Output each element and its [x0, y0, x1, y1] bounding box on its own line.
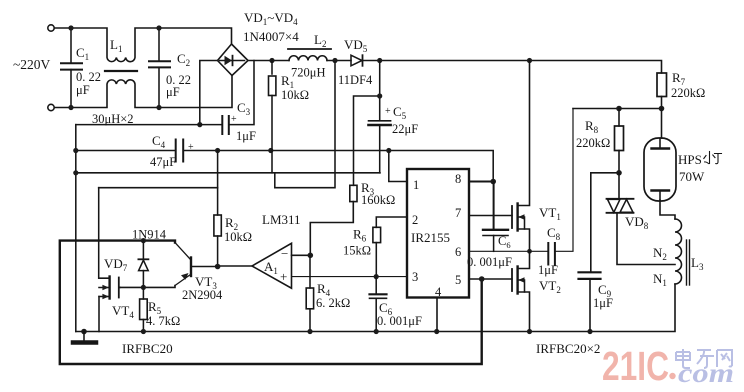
svg-text:VD5: VD5 [344, 37, 368, 54]
junction dot inverting node [308, 253, 314, 259]
svg-text:1μF: 1μF [236, 129, 256, 143]
wire: emitter line y=287.4 [120, 286, 175, 288]
wire: bottom AC line from terminal through L1 bottom winding to bridge bottom [54, 76, 232, 108]
wire: rail between L2 and VD5 [327, 60, 351, 62]
svg-text:IRFBC20×2: IRFBC20×2 [536, 341, 600, 356]
diode VD5 [351, 55, 363, 66]
svg-text:C1: C1 [76, 45, 89, 62]
wire: comparator + input line to IC pin 3 [292, 276, 408, 278]
diode VD7 [138, 241, 148, 288]
svg-text:N2: N2 [653, 245, 667, 262]
wire: pin 2 to R6 top [376, 217, 407, 227]
svg-text:11DF4: 11DF4 [338, 73, 373, 87]
junction dot C5/R3 branch [377, 93, 382, 98]
junction dot pin4 bottom [434, 329, 439, 334]
junction dot rail at R1 [268, 148, 273, 153]
wire: lamp bottom to L3 [660, 200, 675, 219]
wire: supply rail y=150.5 left segment to C4 [76, 150, 176, 152]
svg-text:IRFBC20: IRFBC20 [122, 341, 173, 356]
svg-text:+: + [231, 114, 237, 125]
svg-text:N1: N1 [653, 271, 667, 288]
transistor VT3 2N2904 [175, 243, 218, 286]
wire: supply rail y=150.5 from C4 to pin8 drop [183, 151, 493, 182]
inductor L3 winding [675, 219, 682, 284]
inductor L1 core bar [105, 70, 137, 72]
svg-text:VD7: VD7 [104, 256, 128, 273]
svg-text:1μF: 1μF [593, 296, 613, 310]
junction dot C9 bottom [587, 329, 592, 334]
lamp HPS 70W [644, 109, 676, 202]
wire: R8 bottom node line to C9 [591, 173, 619, 272]
wire: ground rail y=331.5 [76, 284, 675, 332]
wire: bridge negative output, left corner down to node [200, 61, 218, 125]
svg-text:4: 4 [435, 285, 442, 299]
svg-text:1μF: 1μF [538, 263, 558, 277]
svg-text:C4: C4 [152, 133, 166, 150]
junction dot rail at left bus [73, 148, 78, 153]
resistor R5 [140, 287, 148, 331]
resistor R3 [350, 185, 357, 201]
svg-text:160kΩ: 160kΩ [361, 193, 395, 207]
capacitor C7 (bootstrap 0.001uF) [483, 182, 508, 252]
svg-text:6. 2kΩ: 6. 2kΩ [316, 296, 350, 310]
wire: pin1 feed from rail [389, 151, 407, 182]
svg-text:C3: C3 [237, 100, 251, 117]
svg-text:1N4007×4: 1N4007×4 [243, 29, 299, 44]
wire: left vertical bus x=75.8 [75, 125, 77, 332]
svg-text:15kΩ: 15kΩ [343, 244, 371, 258]
wire: negative line y=124.6 [76, 124, 222, 126]
junction dot pin 8 node [490, 179, 496, 185]
junction dot R8 top [616, 106, 622, 112]
svg-text:C6: C6 [498, 234, 511, 250]
diac VD8 [607, 173, 676, 265]
junction dot rail at VT1 drain [527, 58, 532, 63]
junction dot C6 on + line [374, 274, 379, 279]
inductor L2 core bar [288, 48, 331, 50]
svg-text:+: + [385, 106, 391, 117]
junction dot C1 top [68, 25, 73, 30]
node: bridge negative junction [197, 122, 202, 127]
svg-text:C8: C8 [547, 225, 561, 242]
svg-text:5: 5 [455, 273, 461, 287]
wire: left horizontal y=187.7 from VT4 drain to R2 [99, 187, 218, 189]
svg-text:VT2: VT2 [539, 278, 561, 295]
svg-text:10kΩ: 10kΩ [281, 88, 309, 102]
AC input terminal top [48, 25, 54, 31]
wire: pin 7 to VT1 gate [469, 215, 512, 217]
svg-text:VD8: VD8 [625, 214, 649, 231]
svg-text:0. 001μF: 0. 001μF [377, 314, 422, 328]
wire: collector line y=240.6 and left drop loop to gate line [60, 241, 482, 364]
resistor R7 [657, 73, 667, 109]
junction dot C2 bottom [156, 105, 161, 110]
svg-text:21IC: 21IC [602, 343, 669, 389]
AC input terminal bottom [48, 104, 54, 110]
junction dot C1 bottom [68, 105, 73, 110]
wire: lamp top line y=108.5 [573, 108, 662, 110]
svg-text:47μF: 47μF [150, 155, 176, 169]
junction dot C2 top [156, 25, 161, 30]
wire: A1 output to VT3 base node [218, 265, 252, 267]
svg-text:VT1: VT1 [539, 205, 561, 222]
wire: pin 5 to VT2 gate [469, 278, 512, 280]
capacitor C1 [61, 28, 82, 108]
junction dot pin6/source node [527, 249, 532, 254]
resistor R2 [214, 151, 221, 267]
junction dot rail at R1 [269, 58, 274, 63]
junction dot VD7/R5 bottom node [141, 285, 146, 290]
wire: R6 bottom to noninverting line [375, 243, 377, 277]
capacitor C2 [149, 28, 170, 108]
wire: IC pin 4 to ground [436, 298, 438, 332]
svg-text:~220V: ~220V [13, 57, 51, 72]
svg-text:IR2155: IR2155 [411, 230, 450, 245]
svg-text:220kΩ: 220kΩ [576, 136, 610, 150]
junction dot C6 bottom [374, 329, 379, 334]
svg-text:A1: A1 [264, 259, 278, 276]
inductor L3 core [686, 240, 688, 285]
junction dot rail at pin1 feed [386, 148, 391, 153]
wire: main positive rail y=60.5 from bridge to R7 [248, 60, 289, 62]
svg-text:220kΩ: 220kΩ [671, 86, 705, 100]
junction dot 1N914 top [141, 238, 146, 243]
svg-text:720μH: 720μH [291, 66, 325, 80]
svg-text:8: 8 [455, 172, 461, 186]
junction dot R4 bottom [307, 329, 312, 334]
svg-text:3: 3 [412, 270, 418, 284]
resistor R4 [306, 255, 313, 331]
svg-text:+: + [280, 269, 287, 284]
junction dot R5 bottom [141, 329, 146, 334]
wire: pin 6 line to VT1 source / VT2 drain [469, 250, 548, 252]
junction dot R8 bottom [616, 170, 622, 176]
svg-text:R6: R6 [353, 227, 367, 244]
svg-text:VT4: VT4 [112, 303, 134, 320]
svg-text:R8: R8 [585, 118, 599, 135]
wire: top AC line from terminal through L1 top winding to bridge top [54, 28, 231, 62]
wire: IC pin 8 to Vcc node [469, 181, 493, 183]
capacitor C8 [548, 109, 573, 265]
ground symbol [73, 332, 96, 343]
wire: inverting input [292, 254, 311, 256]
svg-text:0. 22: 0. 22 [76, 70, 101, 84]
svg-text:6: 6 [455, 245, 461, 259]
svg-text:4. 7kΩ: 4. 7kΩ [146, 314, 180, 328]
svg-text:10kΩ: 10kΩ [224, 230, 252, 244]
capacitor C3 [222, 61, 254, 135]
bridge inner diode symbol [220, 56, 245, 66]
junction dot rail at R2 [215, 148, 220, 153]
wire: branch from C5 node to R3 [354, 96, 380, 185]
svg-text:+: + [188, 142, 194, 153]
svg-text:C5: C5 [393, 104, 407, 121]
svg-text:μF: μF [76, 83, 90, 97]
junction dot ground stub [81, 329, 87, 335]
junction dot lamp top [659, 106, 665, 112]
inductor L2 winding [289, 56, 327, 61]
transistor VT1 MOSFET [512, 61, 530, 252]
svg-text:0. 001μF: 0. 001μF [467, 255, 512, 269]
junction dot pin 5 node [479, 276, 485, 282]
transistor VT2 MOSFET [512, 251, 530, 331]
svg-text:L3: L3 [691, 255, 704, 272]
wire: rail from VD5 to R7 corner [363, 61, 662, 74]
junction dot VT2 source [527, 329, 532, 334]
IC U1 IR2155 body [407, 169, 469, 298]
svg-text:LM311: LM311 [262, 212, 301, 227]
capacitor C6 (pin3) [370, 277, 387, 332]
svg-text:R7: R7 [672, 70, 686, 87]
watermark chinese dianziwang [676, 349, 732, 368]
svg-text:VD1~VD4: VD1~VD4 [244, 10, 298, 27]
resistor R1 [269, 61, 276, 173]
junction dot left bus y=172.8 [73, 170, 78, 175]
svg-text:C2: C2 [177, 51, 190, 68]
svg-text:1: 1 [413, 178, 419, 192]
svg-text:70W: 70W [679, 169, 705, 184]
capacitor C5 [369, 61, 391, 173]
svg-text:HPS: HPS [678, 152, 702, 167]
svg-text:1N914: 1N914 [132, 228, 167, 242]
capacitor C9 [579, 272, 601, 331]
junction dot rail at C5 branch [377, 58, 382, 63]
transistor VT4 MOSFET [99, 188, 120, 332]
svg-text:μF: μF [166, 85, 180, 99]
svg-text:7: 7 [455, 206, 461, 220]
wire: R3 bottom elbow to comparator inverting input [310, 202, 353, 256]
junction dot VT3 base node [215, 264, 221, 270]
wire: second supply line y=172.8 [76, 172, 380, 174]
svg-text:2N2904: 2N2904 [182, 288, 223, 302]
svg-text:22μF: 22μF [392, 122, 418, 136]
svg-text:−: − [281, 246, 288, 261]
op-amp comparator A1 LM311 [252, 243, 292, 288]
resistor R6 [373, 227, 381, 242]
capacitor C4 [176, 140, 184, 162]
junction dot rail at VD5 anode branch [332, 58, 337, 63]
svg-text:L2: L2 [314, 32, 326, 49]
svg-text:2: 2 [412, 213, 418, 227]
watermark dot [669, 373, 675, 379]
wire: link from R1 bottom over to VD5 anode net [275, 61, 335, 188]
svg-text:L1: L1 [110, 37, 122, 54]
resistor R8 [615, 109, 624, 173]
glyph: lamp chinese char [704, 152, 722, 164]
bridge rectifier VD1-VD4 diamond [218, 44, 249, 76]
